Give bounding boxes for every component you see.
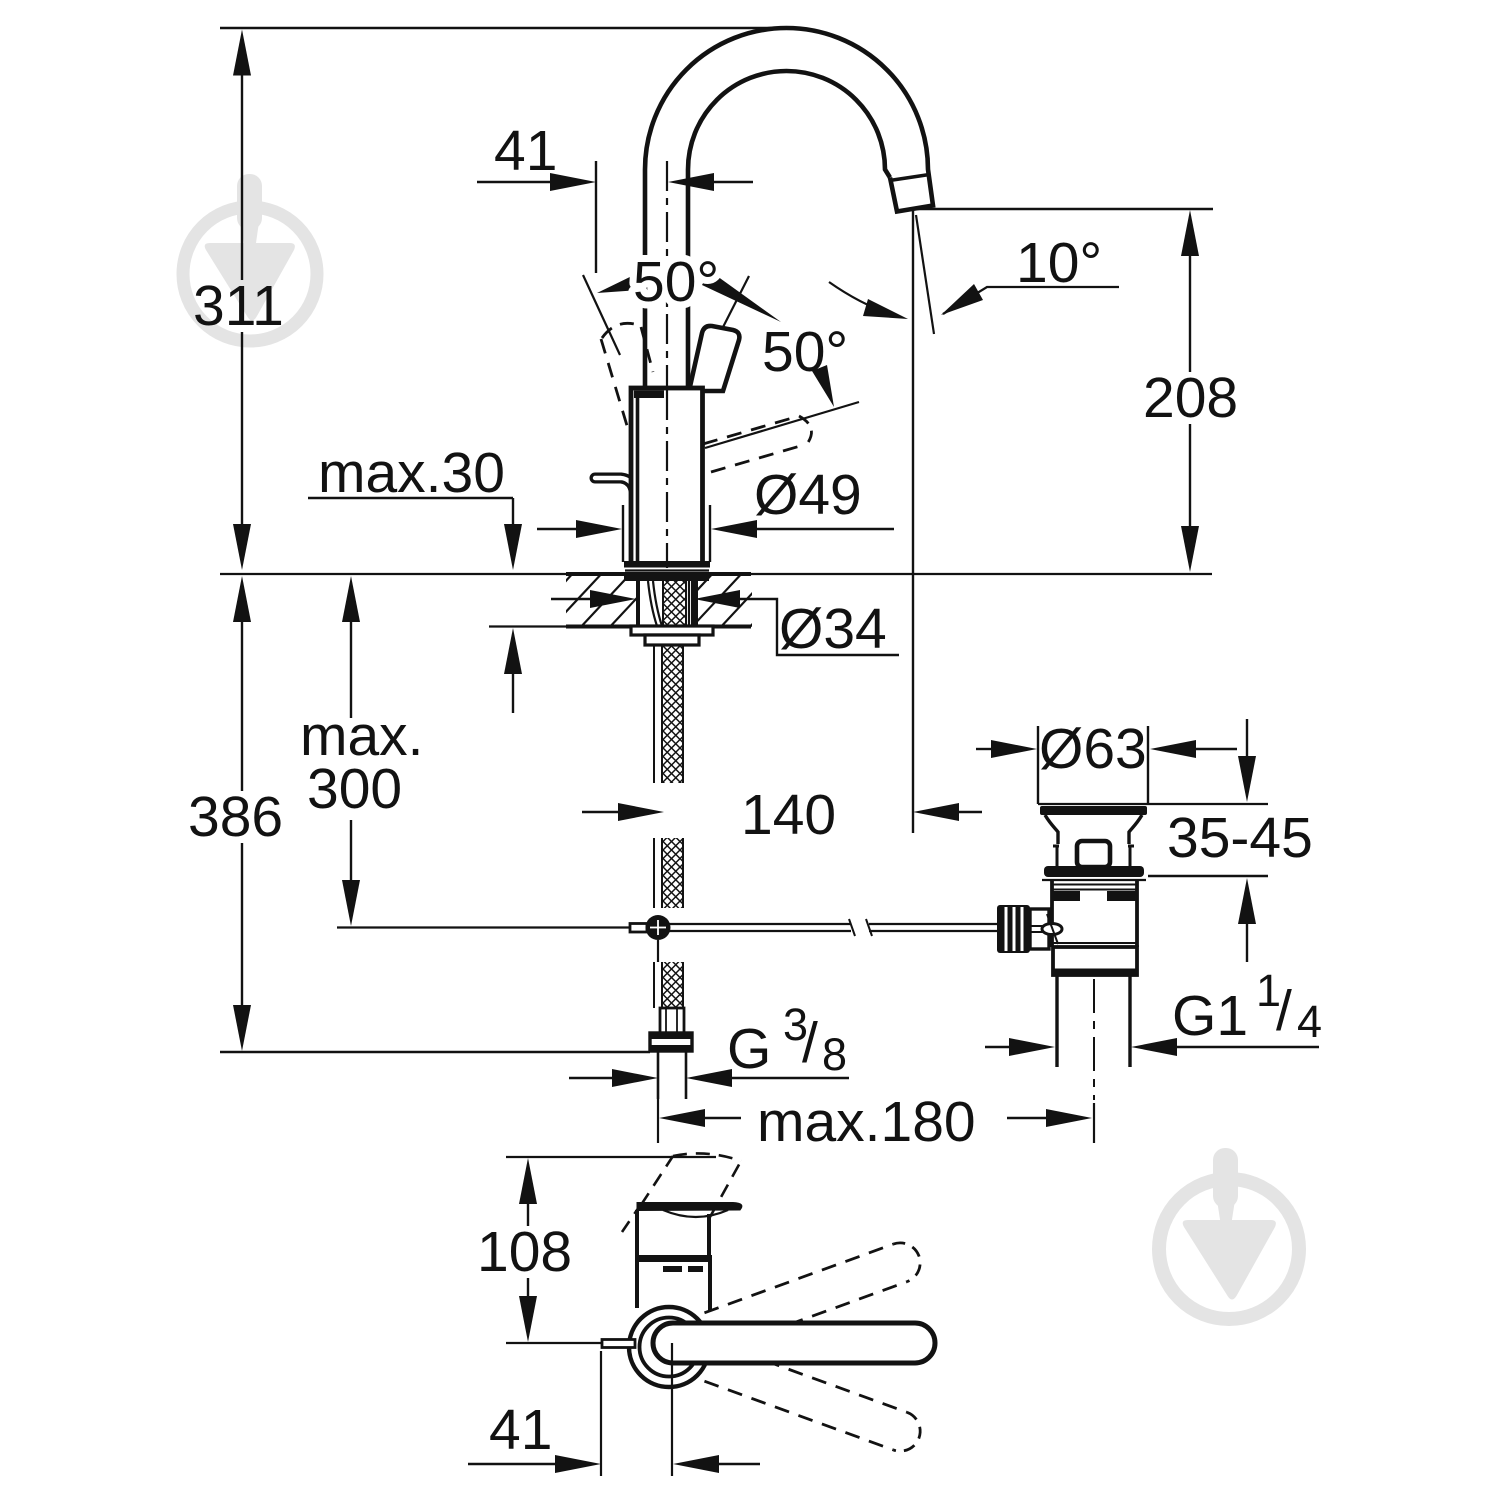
- svg-text:300: 300: [307, 757, 402, 821]
- bottom view extension line top: [506, 1156, 716, 1158]
- pull rod to drain (with break): [669, 923, 851, 925]
- svg-text:Ø34: Ø34: [779, 597, 887, 661]
- 50 deg arc arrow left: [597, 274, 639, 293]
- hose tube below nut: [657, 1051, 660, 1099]
- deck hatching right: [660, 570, 832, 630]
- flexible hose segment 3: [662, 962, 683, 1008]
- dimension O34 arrows and leader: [551, 598, 590, 600]
- deck bottom line: [489, 625, 568, 627]
- rod link ellipse: [1042, 924, 1062, 935]
- bottom reference line: [220, 1051, 650, 1053]
- hose curves inside shank: [648, 581, 657, 626]
- dashed handle position upper: [704, 1237, 925, 1350]
- watermark logo top-left: [183, 174, 317, 341]
- svg-text:208: 208: [1143, 366, 1238, 430]
- mounting clamp under base: [624, 574, 709, 581]
- dimension 311 vertical line with arrows: [233, 30, 251, 76]
- dimension max.300 line with arrows: [342, 576, 360, 622]
- dimension 41 bottom extension lines: [600, 1351, 602, 1476]
- svg-text:108: 108: [477, 1220, 572, 1284]
- outlet level extension line: [914, 208, 1213, 210]
- bottom view spout tip bar: [637, 1203, 742, 1211]
- svg-text:50°: 50°: [633, 250, 719, 314]
- body top accent bar: [634, 391, 664, 399]
- top reference line: [220, 27, 772, 30]
- body left wall inner line: [636, 391, 640, 561]
- bottom view joint bar: [635, 1255, 712, 1262]
- dimension O63 extension lines: [1037, 726, 1039, 804]
- dimension 208 vertical line with arrows: [1181, 210, 1199, 256]
- pop-up rod knob at faucet body: [595, 478, 646, 556]
- svg-text:/: /: [1276, 979, 1292, 1043]
- svg-text:max.30: max.30: [318, 441, 505, 505]
- drain plug taper right: [1129, 815, 1142, 844]
- dimension 41 bottom arrows: [468, 1463, 555, 1465]
- drain plug taper left: [1045, 815, 1058, 844]
- dimension max.180 arrows: [659, 1109, 705, 1127]
- drain collar: [1053, 947, 1137, 975]
- spout gooseneck inner outline: [688, 71, 890, 389]
- 10 deg arc with arrowhead: [829, 282, 901, 317]
- extension line for 41: [595, 161, 597, 273]
- dimension G1 1/4 arrows: [985, 1046, 1009, 1048]
- svg-text:140: 140: [741, 783, 836, 847]
- svg-text:max.180: max.180: [757, 1090, 976, 1154]
- pop-up rod pin top view: [602, 1340, 635, 1348]
- 50 deg lower reference line: [705, 402, 859, 448]
- 10 deg leader line: [943, 287, 1119, 314]
- shank right tube: [688, 581, 690, 626]
- svg-text:Ø49: Ø49: [754, 463, 862, 527]
- watermark logo bottom-right: [1159, 1148, 1299, 1319]
- svg-text:Ø63: Ø63: [1039, 717, 1147, 781]
- rod connector block: [1030, 909, 1049, 949]
- 10 deg leader arrowhead: [941, 284, 983, 315]
- locknut below deck: [631, 626, 713, 635]
- dimension 41 (top) lines and arrows: [477, 181, 552, 183]
- svg-text:/: /: [802, 1011, 818, 1075]
- faucet body: [631, 388, 703, 564]
- aerator joint line: [890, 175, 930, 181]
- 50 deg swing boundary line left: [583, 275, 620, 355]
- threaded shank crosshatch: [663, 574, 686, 626]
- 50 deg swing boundary line right: [689, 276, 749, 394]
- drain plug square knob: [1077, 841, 1110, 867]
- pull rod left reference line: [337, 926, 630, 928]
- dimension 386 vertical line with arrows: [233, 576, 251, 622]
- drain plug top line: [1038, 803, 1268, 805]
- hose nut G3/8: [650, 1033, 692, 1051]
- dimension O63 arrows: [976, 748, 991, 750]
- dashed handle rotated 50 deg down-right: [703, 416, 799, 444]
- flexible hose segment 1: [662, 645, 683, 783]
- deck top line: [220, 573, 568, 575]
- hose end fitting: [660, 1008, 684, 1033]
- dashed handle tilted left: [601, 339, 628, 429]
- svg-text:50°: 50°: [762, 320, 848, 384]
- dimension G3/8 arrows: [569, 1077, 612, 1079]
- svg-text:G: G: [727, 1017, 771, 1081]
- dimension O49 extension lines: [622, 505, 624, 562]
- bottom view spout sides: [635, 1210, 639, 1259]
- water stream line: [916, 215, 934, 334]
- base circle outer: [629, 1307, 709, 1387]
- deck hatching left: [520, 570, 721, 630]
- drain centerline: [1093, 979, 1095, 1100]
- handle lever solid: [689, 326, 739, 391]
- spout gooseneck outer outline: [645, 28, 933, 389]
- bottom view body dashes: [663, 1266, 682, 1272]
- shank left wall: [636, 581, 640, 626]
- svg-text:G1: G1: [1172, 984, 1248, 1048]
- flexible hose segment 2: [662, 838, 683, 908]
- drain flange: [1044, 866, 1144, 877]
- bottom view body sides: [635, 1262, 639, 1308]
- svg-text:8: 8: [822, 1029, 847, 1080]
- drain tailpipe: [1055, 975, 1058, 1067]
- faucet centerline upper (dash-dot): [666, 161, 668, 388]
- svg-text:386: 386: [188, 785, 283, 849]
- dashed handle position lower: [704, 1344, 925, 1457]
- drain body notches: [1053, 891, 1080, 901]
- dimension 35-45 lines and arrows: [1246, 719, 1248, 757]
- svg-text:311: 311: [193, 274, 284, 338]
- drain plug cap: [1040, 806, 1147, 815]
- dimension O49 arrows: [537, 528, 577, 530]
- pull rod knurled knob: [997, 905, 1030, 953]
- base circle inner: [640, 1318, 699, 1377]
- dimension 108 with arrows: [519, 1158, 537, 1204]
- svg-text:10°: 10°: [1016, 231, 1102, 295]
- 50 deg arc arrow right: [702, 271, 781, 322]
- svg-text:35-45: 35-45: [1167, 806, 1313, 870]
- base flange: [624, 561, 710, 568]
- hose tube extension line: [657, 1099, 659, 1143]
- extension line drain center: [1093, 1103, 1095, 1143]
- bottom view dashed swung spout: [641, 1156, 673, 1205]
- rod ball joint: [646, 915, 671, 940]
- outlet projection line: [912, 211, 914, 833]
- dimension 140 arrows: [582, 811, 618, 813]
- svg-text:41: 41: [494, 119, 557, 183]
- drain body: [1050, 880, 1054, 947]
- 50 deg lower leader arrow: [812, 365, 834, 407]
- handle lever top view: [653, 1323, 935, 1363]
- svg-text:4: 4: [1297, 996, 1322, 1047]
- faucet centerline in body (dash-dot): [666, 390, 668, 568]
- rod end fitting: [630, 924, 647, 933]
- svg-text:41: 41: [489, 1398, 552, 1462]
- bottom view extension line lower: [506, 1342, 602, 1344]
